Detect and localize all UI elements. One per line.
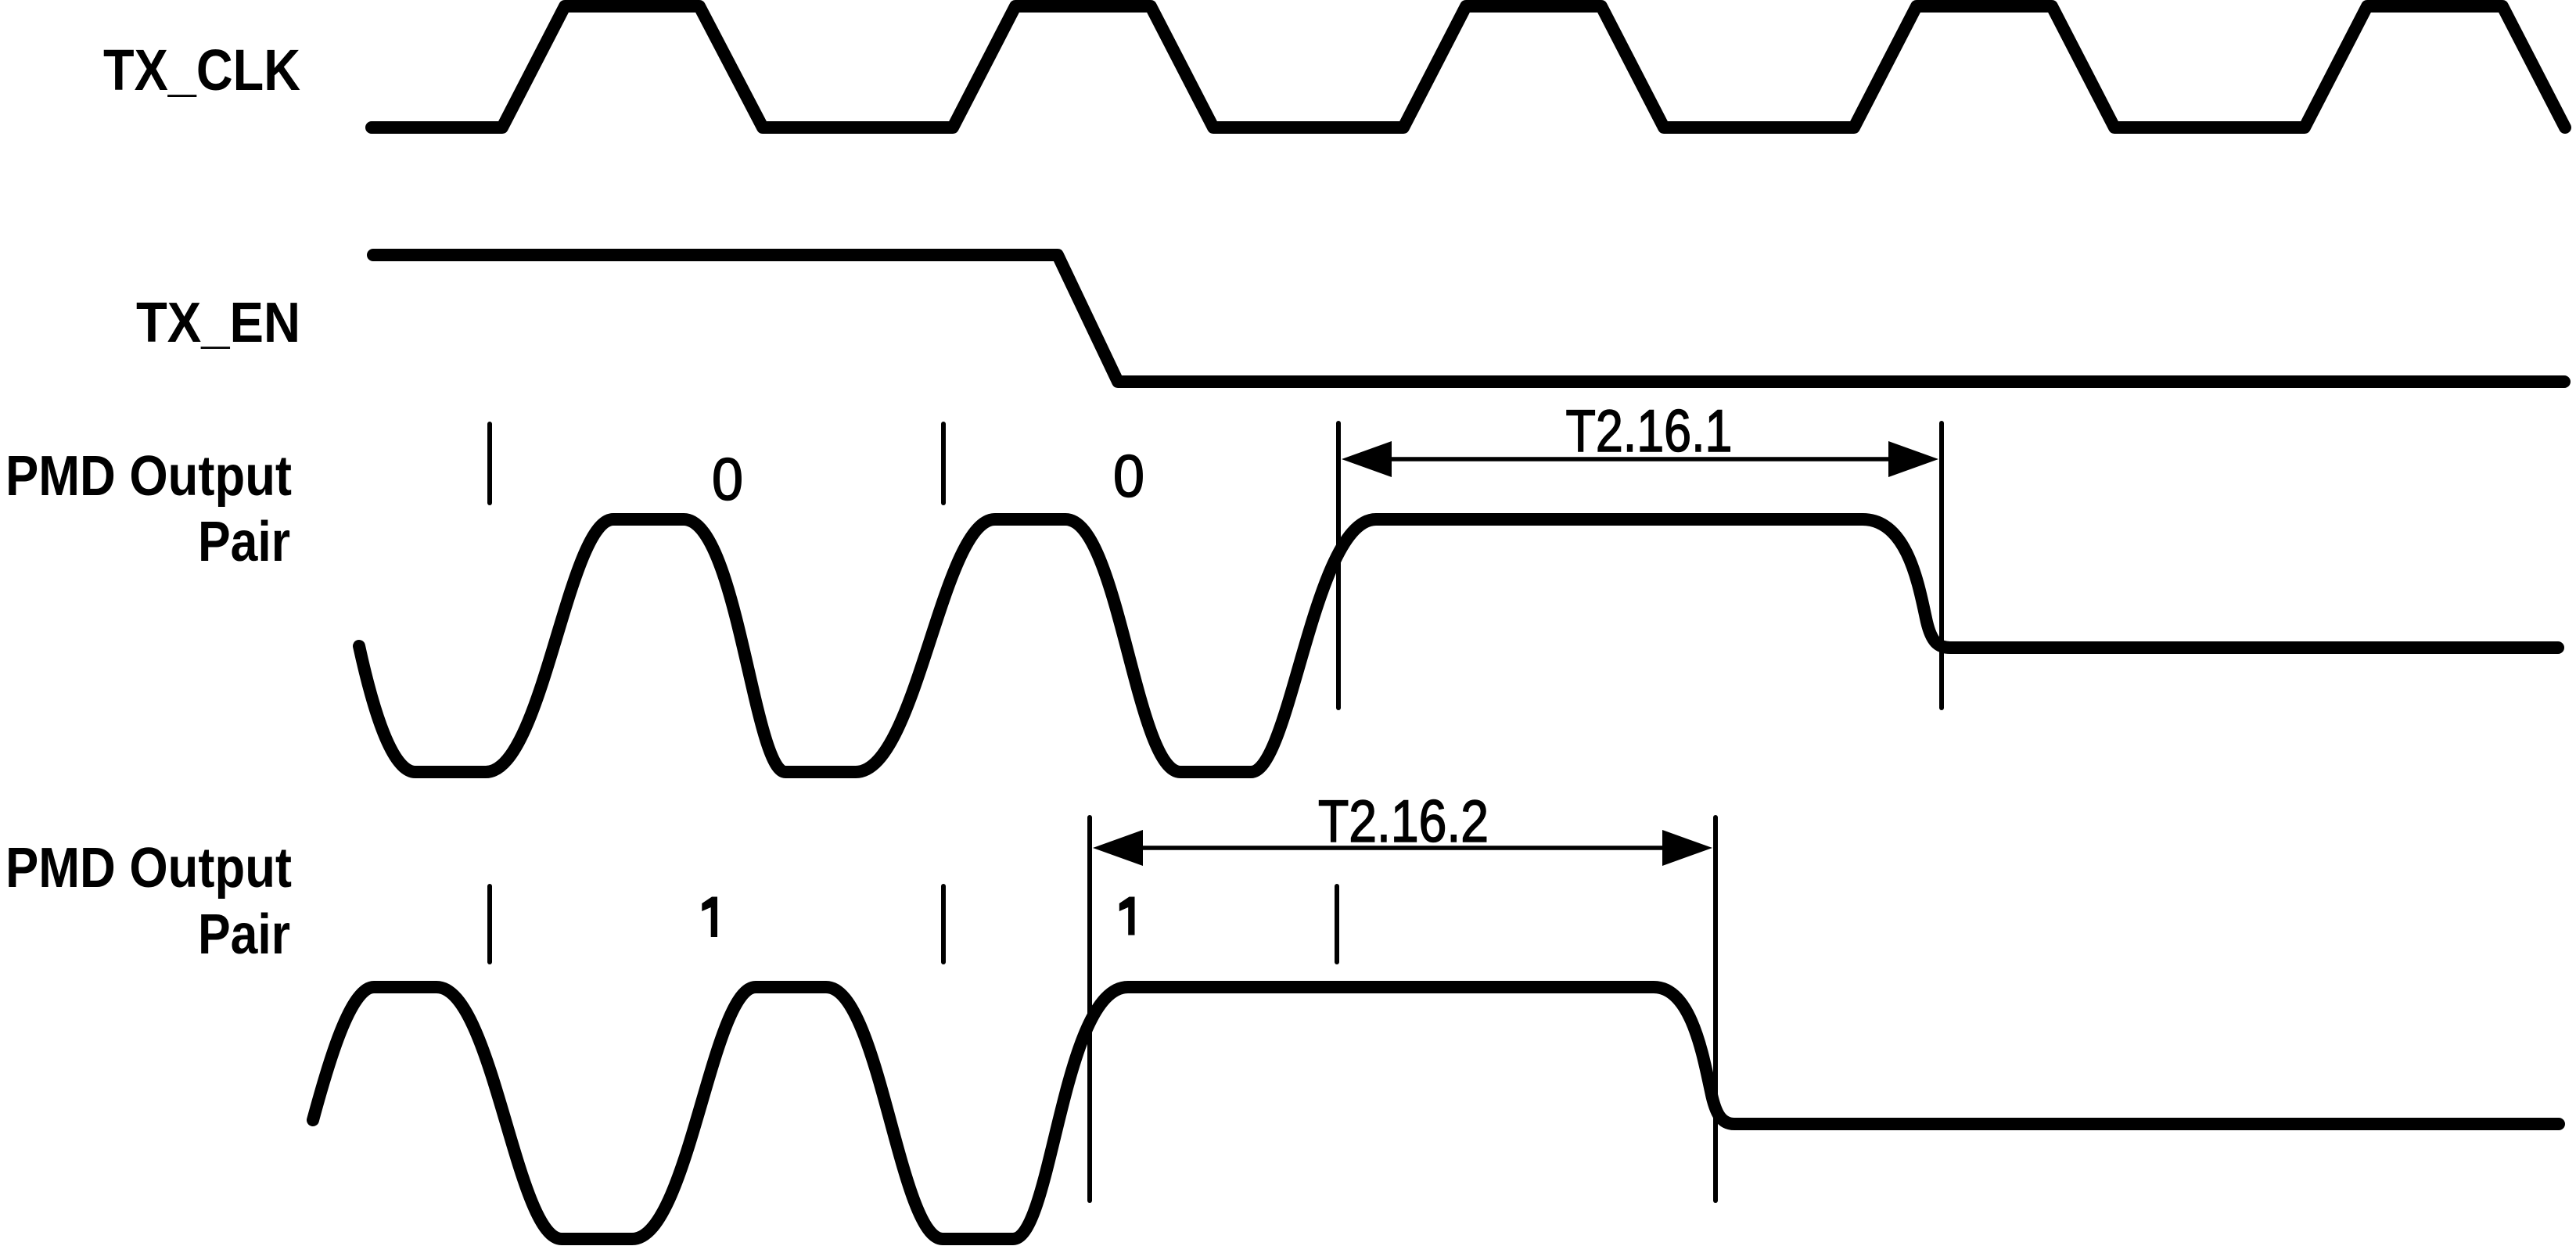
svg-text:0: 0 (712, 447, 743, 513)
node arrowhead left (T2.16.2) (1093, 830, 1143, 866)
node arrowhead left (T2.16.1) (1342, 441, 1392, 477)
node arrowhead right (T2.16.2) (1662, 830, 1712, 866)
svg-text:T2.16.1: T2.16.1 (1566, 398, 1733, 465)
wire dimension arrow line T2.16.1 (1377, 457, 1902, 461)
svg-text:Pair: Pair (198, 511, 290, 573)
wire TX_EN waveform (373, 255, 2564, 382)
svg-text:0: 0 (1113, 443, 1144, 510)
node bit-cell tick 2 (row 1) (941, 424, 946, 503)
svg-text:TX_CLK: TX_CLK (103, 38, 300, 102)
node arrowhead right (T2.16.1) (1888, 441, 1938, 477)
node bit-cell tick 1 (row 2) (487, 886, 492, 962)
wire PMD Output Pair waveform (row 1) (359, 519, 2558, 772)
node bit value 1 (second, row 2) (1119, 897, 1135, 935)
node timing reference line left (T2.16.1) (1336, 423, 1341, 708)
node timing reference line right (T2.16.2) (1713, 817, 1718, 1201)
wire dimension arrow line T2.16.2 (1130, 846, 1678, 850)
svg-text:Pair: Pair (198, 903, 290, 966)
node bit-cell tick 1 (row 1) (487, 424, 492, 503)
node timing reference line right (T2.16.1) (1939, 423, 1944, 708)
node bit-cell tick 2 (row 2) (941, 886, 946, 962)
svg-text:T2.16.2: T2.16.2 (1318, 788, 1489, 855)
node timing reference line left (T2.16.2) (1087, 817, 1092, 1201)
node bit value 1 (first, row 2) (702, 897, 717, 938)
svg-text:TX_EN: TX_EN (136, 292, 300, 354)
wire TX_CLK clock waveform (372, 6, 2565, 127)
svg-text:PMD Output: PMD Output (5, 445, 292, 508)
wire PMD Output Pair waveform (row 2) (313, 987, 2559, 1239)
svg-text:PMD Output: PMD Output (5, 837, 292, 899)
node bit-cell tick 3 (row 2) (1335, 886, 1339, 962)
